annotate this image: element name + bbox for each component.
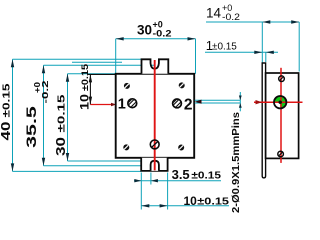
terminal 2	[171, 95, 184, 109]
svg-text:1: 1	[118, 97, 126, 113]
dim 14 top right	[206, 22, 299, 72]
side view body	[266, 73, 299, 158]
svg-text:±0.15: ±0.15	[56, 94, 67, 133]
side red horizontal centerline	[254, 100, 303, 104]
svg-text:-0.2: -0.2	[41, 80, 50, 104]
pin dim arrows	[239, 96, 242, 108]
dim 40 arrows	[11, 59, 14, 171]
front view top tab	[142, 59, 169, 74]
screw bottom-left	[123, 144, 129, 150]
side green circle fill	[274, 96, 286, 108]
pin diameter leader lines	[195, 92, 241, 111]
svg-text:40: 40	[0, 121, 13, 140]
dim 30 top	[116, 39, 196, 74]
side screw top ring	[279, 76, 285, 82]
svg-text:30: 30	[137, 23, 152, 38]
svg-text:30: 30	[54, 137, 68, 156]
dim 14 arrows	[262, 20, 299, 23]
dim 30 top arrows	[116, 37, 196, 40]
leader arrow at body edge	[195, 100, 202, 104]
terminal 1	[126, 95, 139, 109]
screw bottom-center ring	[150, 140, 159, 149]
side screw bottom fill	[278, 151, 284, 157]
svg-text:3.5: 3.5	[172, 167, 190, 182]
side view flange plate	[262, 63, 265, 178]
red centerline vertical front	[154, 60, 156, 170]
bottom tab arch cutout	[151, 161, 159, 171]
dim 10 bottom arrows	[141, 204, 167, 207]
dim 35.5 arrows	[42, 65, 45, 166]
dim 1 top right	[205, 52, 278, 62]
svg-text:±0.15: ±0.15	[197, 196, 229, 208]
screw bottom-right	[178, 145, 184, 151]
dim 3.5 bottom	[134, 173, 221, 210]
side green circle ring	[274, 96, 286, 108]
screw top-left	[124, 83, 130, 89]
dim 35.5 vertical line	[44, 62, 155, 166]
dim 10 left (black)	[88, 74, 116, 104]
dim 3.5 arrows	[134, 179, 158, 182]
svg-text:10: 10	[184, 194, 198, 208]
svg-text:-0.2: -0.2	[153, 29, 172, 39]
dim 30 left vertical line	[68, 74, 142, 161]
side red vertical centerline	[280, 68, 282, 163]
dim 30 left arrows	[66, 74, 69, 161]
side screw top fill	[279, 76, 285, 82]
svg-text:10: 10	[78, 94, 92, 110]
svg-text:14: 14	[206, 6, 222, 21]
svg-text:-0.2: -0.2	[222, 12, 240, 22]
dim 10 bottom	[141, 173, 229, 210]
dim 10 left arrows	[89, 74, 92, 104]
screw top-right	[179, 82, 185, 88]
front view body	[116, 74, 195, 158]
svg-text:±0.15: ±0.15	[191, 170, 221, 182]
front view bottom tab	[141, 158, 167, 171]
svg-text:2-Ø0.9X1.5mmPins: 2-Ø0.9X1.5mmPins	[230, 112, 242, 213]
svg-text:±0.15: ±0.15	[80, 63, 91, 91]
dim 10 red pointer line	[90, 103, 116, 106]
dim 40 vertical line left	[13, 59, 143, 171]
svg-text:35.5: 35.5	[23, 106, 39, 148]
dim 1 arrows	[254, 51, 273, 54]
screw bottom-center fill	[150, 140, 159, 149]
svg-text:±0.15: ±0.15	[1, 83, 12, 118]
svg-text:±0.15: ±0.15	[212, 41, 237, 53]
svg-text:2: 2	[184, 97, 193, 114]
side screw bottom ring	[278, 151, 284, 157]
